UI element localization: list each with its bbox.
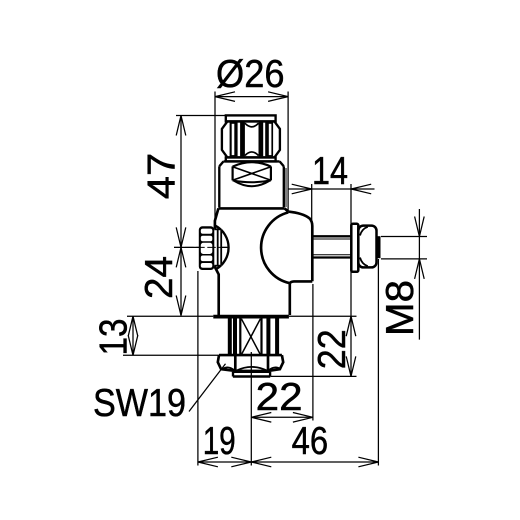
svg-text:22: 22 bbox=[311, 329, 354, 369]
svg-text:14: 14 bbox=[312, 150, 348, 193]
svg-text:19: 19 bbox=[203, 420, 236, 463]
svg-text:Ø26: Ø26 bbox=[216, 53, 285, 96]
svg-text:46: 46 bbox=[292, 420, 329, 463]
svg-text:47: 47 bbox=[141, 153, 184, 200]
svg-text:M8: M8 bbox=[379, 280, 422, 336]
svg-text:22: 22 bbox=[256, 376, 303, 419]
svg-text:24: 24 bbox=[138, 256, 181, 299]
svg-text:13: 13 bbox=[93, 319, 136, 356]
svg-text:SW19: SW19 bbox=[93, 382, 186, 425]
